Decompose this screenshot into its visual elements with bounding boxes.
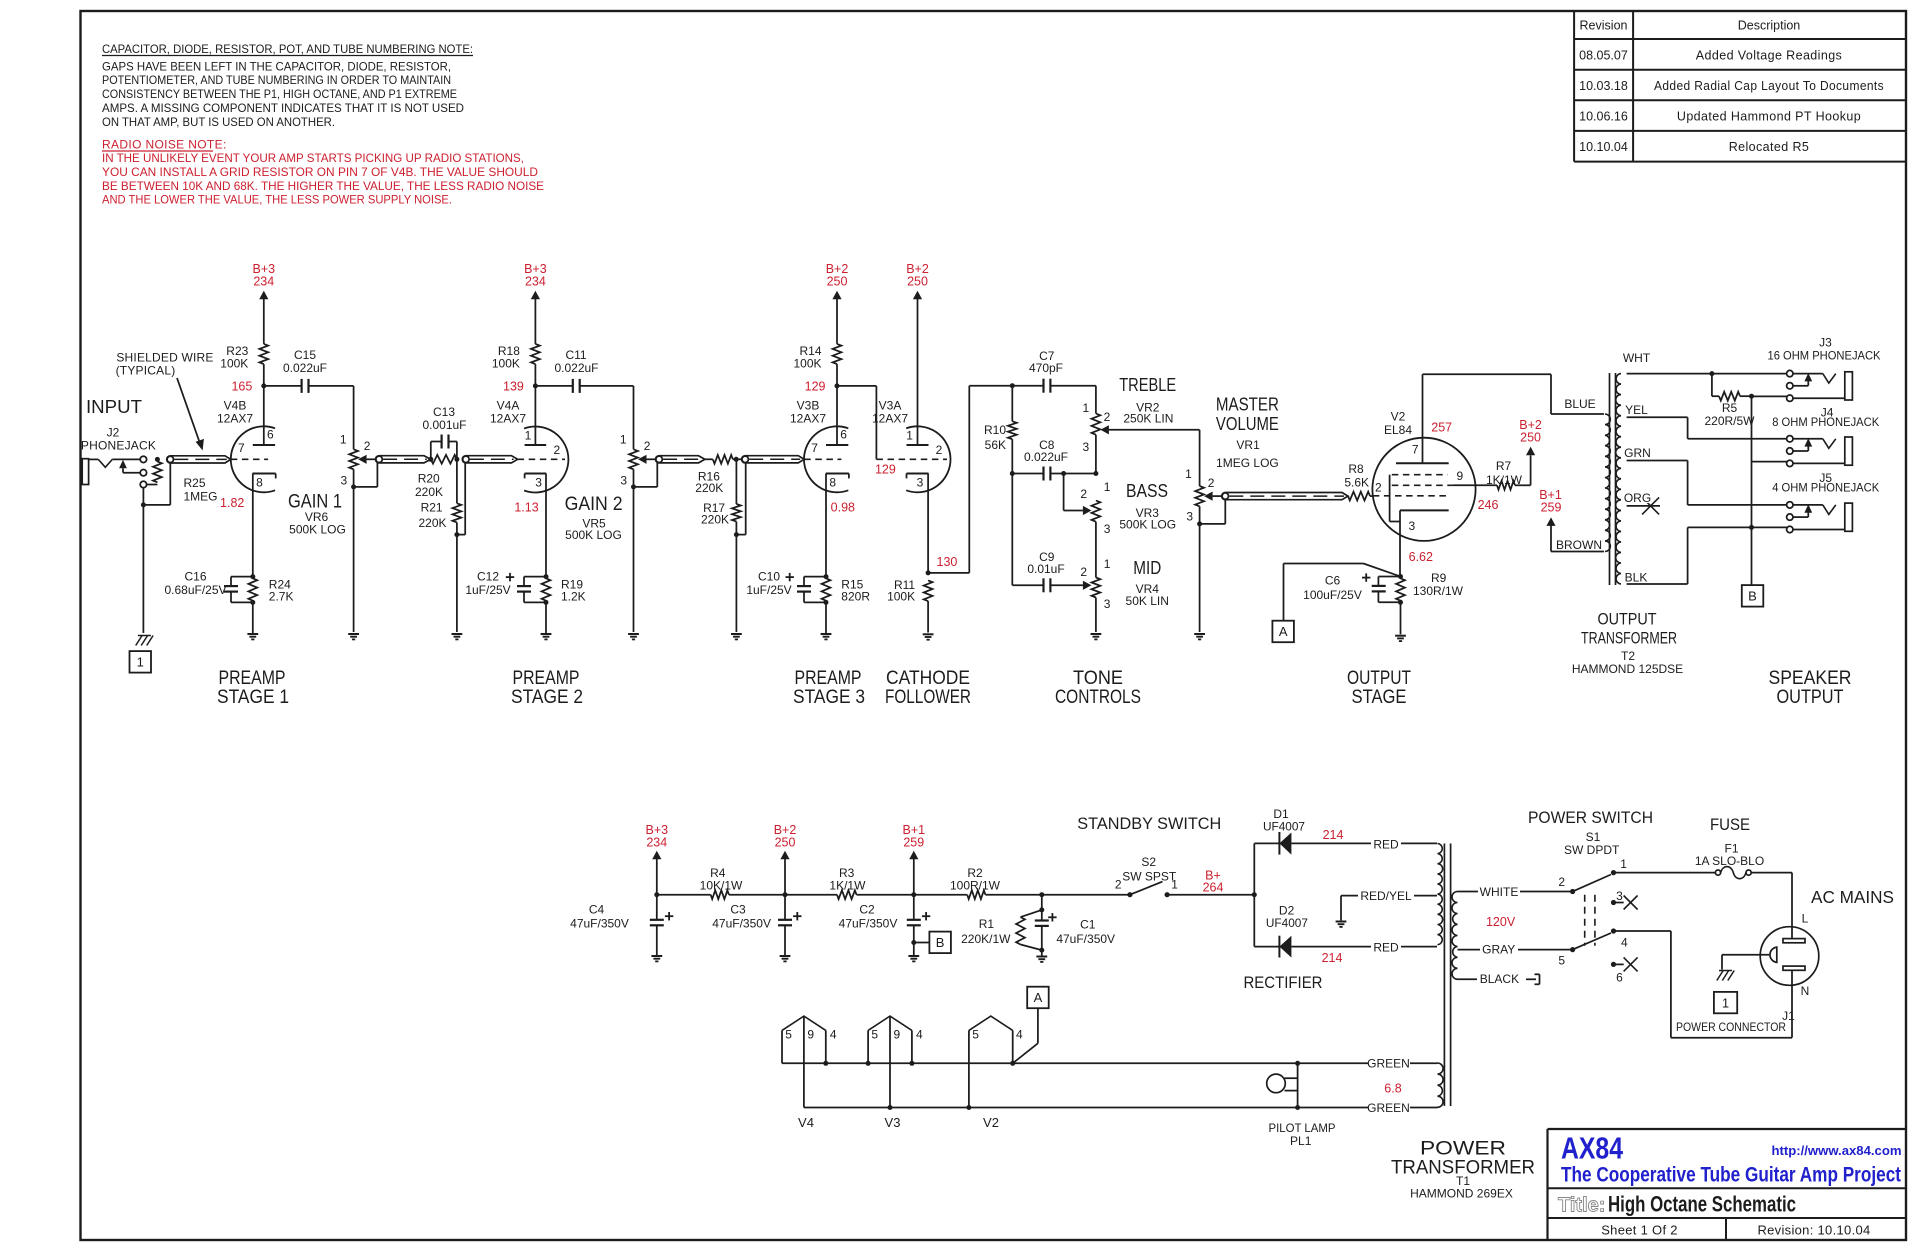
svg-text:T2: T2 <box>1621 649 1635 663</box>
tube V3A <box>872 399 951 573</box>
svg-text:BLACK: BLACK <box>1480 972 1519 986</box>
svg-text:GAPS HAVE BEEN LEFT IN THE CAP: GAPS HAVE BEEN LEFT IN THE CAPACITOR, DI… <box>102 59 451 73</box>
svg-text:1: 1 <box>137 655 144 670</box>
svg-text:1.2K: 1.2K <box>561 589 586 603</box>
svg-text:0.022uF: 0.022uF <box>283 361 327 375</box>
blue label <box>1564 397 1595 411</box>
svg-text:220R/5W: 220R/5W <box>1704 414 1755 428</box>
svg-text:12AX7: 12AX7 <box>217 412 253 426</box>
diode D1 <box>1252 807 1306 897</box>
resistor R25 <box>147 457 218 504</box>
svg-text:3: 3 <box>1409 519 1416 533</box>
svg-text:1: 1 <box>1620 857 1627 871</box>
pot VR6 gain1 <box>340 386 377 640</box>
net B+3 supply <box>646 823 669 895</box>
svg-text:1A SLO-BLO: 1A SLO-BLO <box>1695 854 1764 868</box>
svg-text:6: 6 <box>840 428 847 442</box>
svg-text:R25: R25 <box>184 476 206 490</box>
svg-text:POTENTIOMETER, AND TUBE NUMBER: POTENTIOMETER, AND TUBE NUMBERING IN ORD… <box>102 73 451 87</box>
preamp stage3 label <box>793 668 865 708</box>
svg-text:3: 3 <box>917 475 924 489</box>
svg-text:R8: R8 <box>1348 462 1364 476</box>
tube V4A <box>490 386 568 577</box>
svg-text:10.10.04: 10.10.04 <box>1579 140 1628 154</box>
chassis ground input <box>136 636 153 646</box>
svg-text:2: 2 <box>1375 481 1382 495</box>
svg-text:1: 1 <box>1185 467 1192 481</box>
svg-text:V2: V2 <box>983 1115 999 1130</box>
capacitor C16 and resistor R24 <box>164 570 293 640</box>
svg-text:R21: R21 <box>421 501 443 515</box>
svg-text:BROWN: BROWN <box>1556 538 1602 552</box>
svg-text:The Cooperative Tube Guitar Am: The Cooperative Tube Guitar Amp Project <box>1561 1164 1901 1187</box>
svg-text:Revision: Revision <box>1580 19 1628 33</box>
svg-text:PREAMP: PREAMP <box>513 668 580 689</box>
svg-text:9: 9 <box>807 1028 814 1042</box>
input jack J2 <box>82 456 146 488</box>
svg-text:N: N <box>1801 984 1810 998</box>
svg-text:250K LIN: 250K LIN <box>1123 411 1173 425</box>
svg-text:5.6K: 5.6K <box>1344 475 1369 489</box>
pot VR3 bass <box>1064 474 1111 578</box>
svg-text:3: 3 <box>1616 889 1623 903</box>
svg-text:16 OHM PHONEJACK: 16 OHM PHONEJACK <box>1768 348 1881 362</box>
svg-text:234: 234 <box>646 836 667 850</box>
capacitor C9 <box>1012 550 1091 592</box>
svg-text:9: 9 <box>893 1028 900 1042</box>
svg-text:1: 1 <box>620 433 627 447</box>
voltage 257 <box>1431 420 1452 434</box>
svg-text:TREBLE: TREBLE <box>1119 375 1176 395</box>
svg-text:High Octane Schematic: High Octane Schematic <box>1608 1192 1796 1217</box>
svg-text:HAMMOND 269EX: HAMMOND 269EX <box>1410 1187 1513 1201</box>
svg-text:234: 234 <box>253 275 274 289</box>
voltage 246 <box>1478 498 1499 512</box>
svg-text:250: 250 <box>907 275 928 289</box>
svg-text:ORG: ORG <box>1624 491 1651 505</box>
svg-text:220K: 220K <box>415 485 443 499</box>
resistor R2 <box>950 866 1001 899</box>
svg-text:1uF/25V: 1uF/25V <box>465 583 510 597</box>
voltage 129 grid <box>875 463 896 477</box>
svg-text:2: 2 <box>1208 476 1215 490</box>
svg-text:1: 1 <box>525 429 532 443</box>
svg-text:6.8: 6.8 <box>1384 1082 1401 1096</box>
svg-text:8 OHM PHONEJACK: 8 OHM PHONEJACK <box>1772 415 1879 429</box>
svg-text:C10: C10 <box>758 570 780 584</box>
resistor R4 <box>700 866 743 899</box>
svg-text:PILOT LAMP: PILOT LAMP <box>1269 1121 1336 1135</box>
svg-text:214: 214 <box>1323 828 1344 842</box>
svg-text:12AX7: 12AX7 <box>872 412 908 426</box>
resistor R23 <box>220 344 268 393</box>
svg-text:L: L <box>1802 912 1809 926</box>
svg-text:470pF: 470pF <box>1029 361 1063 375</box>
wire plate to OT blue <box>1423 374 1605 414</box>
svg-text:TONE: TONE <box>1073 668 1123 689</box>
capacitor C10 and resistor R15 <box>746 570 870 640</box>
svg-text:6: 6 <box>1616 971 1623 985</box>
svg-text:0.022uF: 0.022uF <box>554 361 598 375</box>
wire plate to grid <box>837 386 876 459</box>
jack J4 <box>1772 405 1879 466</box>
power transformer T1 <box>1438 844 1458 1108</box>
brown label <box>1556 538 1602 552</box>
wire ORG tap not connected <box>1624 491 1660 514</box>
svg-text:V3: V3 <box>885 1115 901 1130</box>
svg-text:IN THE UNLIKELY EVENT YOUR AMP: IN THE UNLIKELY EVENT YOUR AMP STARTS PI… <box>102 151 524 165</box>
voltage 1.82 <box>220 496 244 510</box>
input label <box>81 397 156 453</box>
resistor R20 <box>415 455 459 499</box>
svg-text:OUTPUT: OUTPUT <box>1347 668 1411 689</box>
voltage 6.8 <box>1384 1082 1401 1096</box>
svg-text:3: 3 <box>1104 597 1111 611</box>
svg-text:50K LIN: 50K LIN <box>1126 594 1169 608</box>
svg-text:CONTROLS: CONTROLS <box>1055 687 1141 708</box>
svg-text:56K: 56K <box>985 438 1006 452</box>
capacitor C13 <box>422 405 466 459</box>
svg-text:UF4007: UF4007 <box>1263 820 1305 834</box>
wire S1 pin4 to mains <box>1614 931 1793 1038</box>
power switch label <box>1528 808 1653 857</box>
jack J5 <box>1772 471 1879 533</box>
svg-text:MASTER: MASTER <box>1216 395 1279 415</box>
voltage 6.62 <box>1409 550 1433 564</box>
resistor R21 <box>418 459 465 639</box>
tone controls label <box>1055 668 1141 708</box>
svg-text:CATHODE: CATHODE <box>886 668 970 689</box>
svg-text:(TYPICAL): (TYPICAL) <box>116 364 176 378</box>
svg-text:V4A: V4A <box>497 399 520 413</box>
svg-text:12AX7: 12AX7 <box>790 412 826 426</box>
svg-text:100uF/25V: 100uF/25V <box>1303 588 1362 602</box>
power connector 1 box <box>1676 992 1795 1034</box>
svg-text:5: 5 <box>871 1028 878 1042</box>
tube V2 EL84 <box>1372 374 1497 576</box>
wire PT gray <box>1458 942 1573 956</box>
master volume label <box>1216 395 1279 470</box>
svg-text:3: 3 <box>341 474 348 488</box>
svg-text:RED/YEL: RED/YEL <box>1360 889 1412 903</box>
svg-text:3: 3 <box>1186 509 1193 523</box>
wire input ground <box>141 463 170 633</box>
svg-text:Title:: Title: <box>1558 1195 1605 1217</box>
svg-text:1: 1 <box>1104 557 1111 571</box>
resistor R1 <box>961 907 1044 952</box>
svg-text:220K: 220K <box>695 481 723 495</box>
svg-text:2: 2 <box>364 439 371 453</box>
capacitor C12 and resistor R19 <box>465 570 585 640</box>
net B+2 screen <box>1519 418 1542 445</box>
svg-text:4: 4 <box>916 1028 923 1042</box>
wire speaker common bus <box>1749 396 1790 585</box>
svg-text:BE BETWEEN 10K AND 68K. THE H: BE BETWEEN 10K AND 68K. THE HIGHER THE V… <box>102 179 544 193</box>
svg-text:1: 1 <box>1171 878 1178 892</box>
svg-text:0.01uF: 0.01uF <box>1027 562 1064 576</box>
svg-text:C6: C6 <box>1325 574 1341 588</box>
svg-text:Revision: 10.10.04: Revision: 10.10.04 <box>1757 1223 1870 1238</box>
shielded wire note <box>116 351 214 451</box>
svg-text:GRAY: GRAY <box>1482 942 1515 956</box>
svg-text:2: 2 <box>936 443 943 457</box>
svg-text:100K: 100K <box>887 589 915 603</box>
shielded cable input <box>167 456 231 463</box>
net B+3 stage1 <box>253 262 276 344</box>
svg-text:2: 2 <box>644 439 651 453</box>
wire BLK tap <box>1624 527 1790 584</box>
svg-text:4: 4 <box>1621 936 1628 950</box>
svg-text:C3: C3 <box>730 903 746 917</box>
svg-text:R9: R9 <box>1431 571 1447 585</box>
capacitor C2 <box>839 895 931 962</box>
svg-text:1K/1W: 1K/1W <box>1486 473 1523 487</box>
svg-text:2: 2 <box>1080 565 1087 579</box>
net B+ 264 <box>1167 869 1254 895</box>
svg-text:YOU CAN INSTALL A GRID RESISTO: YOU CAN INSTALL A GRID RESISTOR ON PIN 7… <box>102 165 538 179</box>
net B+1 output <box>1539 488 1604 552</box>
svg-text:GAIN 2: GAIN 2 <box>565 494 623 515</box>
capacitor C6 and resistor R9 <box>1303 571 1464 641</box>
svg-text:Updated Hammond PT Hookup: Updated Hammond PT Hookup <box>1677 110 1861 124</box>
AC mains label <box>1811 887 1894 907</box>
svg-text:100K: 100K <box>220 357 248 371</box>
svg-text:SW DPDT: SW DPDT <box>1564 843 1620 857</box>
svg-text:5: 5 <box>785 1028 792 1042</box>
svg-text:47uF/350V: 47uF/350V <box>839 917 898 931</box>
svg-text:1K/1W: 1K/1W <box>829 879 866 893</box>
svg-text:R10: R10 <box>984 423 1006 437</box>
rectifier label <box>1244 973 1323 992</box>
shielded cable stage1 out <box>376 456 431 463</box>
AC mains plug J1 <box>1760 873 1819 998</box>
svg-text:3: 3 <box>1104 522 1111 536</box>
wire D2 to PT red <box>1291 941 1437 955</box>
wire heater green top <box>1298 1056 1438 1070</box>
switch S2 <box>1115 878 1178 898</box>
svg-text:A: A <box>1279 624 1288 639</box>
svg-text:47uF/350V: 47uF/350V <box>1056 932 1115 946</box>
svg-text:7: 7 <box>811 441 818 455</box>
svg-text:J2: J2 <box>107 426 120 440</box>
svg-text:1MEG LOG: 1MEG LOG <box>1216 456 1279 470</box>
svg-text:GREEN: GREEN <box>1367 1056 1410 1070</box>
revision table <box>1574 11 1906 162</box>
svg-text:0.001uF: 0.001uF <box>422 418 466 432</box>
capacitor C8 <box>1012 438 1096 481</box>
fuse label <box>1695 815 1764 868</box>
resistor R17 <box>701 459 746 639</box>
svg-text:R7: R7 <box>1496 459 1512 473</box>
svg-text:V4: V4 <box>798 1115 814 1130</box>
sheet title text <box>1558 1192 1796 1217</box>
svg-text:BASS: BASS <box>1126 481 1168 501</box>
resistor R5 <box>1702 374 1758 428</box>
svg-text:3: 3 <box>1083 440 1090 454</box>
svg-text:PHONEJACK: PHONEJACK <box>81 439 156 453</box>
svg-text:120V: 120V <box>1486 915 1516 929</box>
svg-text:AND THE LOWER THE VALUE, THE L: AND THE LOWER THE VALUE, THE LESS POWER … <box>102 193 452 207</box>
svg-text:STAGE 3: STAGE 3 <box>793 687 865 708</box>
svg-text:0.022uF: 0.022uF <box>1024 450 1068 464</box>
svg-text:2: 2 <box>1558 875 1565 889</box>
B+ rail wire <box>654 892 1129 897</box>
capacitor C1 <box>1035 895 1115 962</box>
pot VR4 mid <box>1080 557 1110 639</box>
wire PT centertap redyel <box>1336 889 1437 927</box>
svg-text:2: 2 <box>1104 410 1111 424</box>
capacitor C3 <box>712 895 801 962</box>
shielded cable stage2 out <box>655 456 704 463</box>
net B+2 supply <box>774 823 797 895</box>
svg-text:V2: V2 <box>1391 410 1406 424</box>
AX84 logo <box>1561 1131 1624 1166</box>
svg-text:250: 250 <box>1520 431 1541 445</box>
preamp stage1 label <box>217 668 289 708</box>
svg-text:GREEN: GREEN <box>1367 1101 1410 1115</box>
svg-text:165: 165 <box>231 379 252 393</box>
svg-text:5: 5 <box>1558 954 1565 968</box>
power connector ground <box>1717 955 1770 981</box>
project title text <box>1561 1164 1901 1187</box>
chassis node 1 box <box>130 651 152 673</box>
fuse F1 <box>1614 867 1793 879</box>
svg-text:SPEAKER: SPEAKER <box>1769 668 1852 689</box>
svg-text:4 OHM PHONEJACK: 4 OHM PHONEJACK <box>1772 481 1879 495</box>
svg-text:100R/1W: 100R/1W <box>950 879 1001 893</box>
svg-text:C12: C12 <box>477 570 499 584</box>
svg-text:130: 130 <box>937 555 958 569</box>
svg-text:C16: C16 <box>184 570 206 584</box>
svg-text:259: 259 <box>903 836 924 850</box>
svg-text:V3B: V3B <box>797 399 820 413</box>
svg-text:STANDBY SWITCH: STANDBY SWITCH <box>1077 814 1221 833</box>
switch S1 <box>1558 857 1637 985</box>
svg-text:SW SPST: SW SPST <box>1122 870 1177 884</box>
svg-text:http://www.ax84.com: http://www.ax84.com <box>1772 1143 1902 1158</box>
tone stack left rail <box>1010 383 1015 585</box>
output transformer T2 <box>1605 373 1621 585</box>
capacitor C15 <box>264 348 354 393</box>
svg-text:1: 1 <box>340 433 347 447</box>
heater V4 pins <box>782 1016 837 1130</box>
svg-text:234: 234 <box>525 275 546 289</box>
pot VR5 gain2 <box>620 386 657 640</box>
svg-text:250: 250 <box>827 275 848 289</box>
svg-text:6.62: 6.62 <box>1409 550 1433 564</box>
heater rail wires <box>782 1063 1298 1107</box>
treble label <box>1119 375 1176 425</box>
voltage 214 bottom <box>1322 951 1343 965</box>
svg-text:B: B <box>1748 588 1757 603</box>
svg-text:C11: C11 <box>565 348 586 362</box>
svg-text:BLUE: BLUE <box>1564 397 1595 411</box>
svg-text:7: 7 <box>1412 443 1419 457</box>
OT label <box>1572 610 1683 677</box>
speaker output label <box>1769 668 1852 708</box>
svg-text:INPUT: INPUT <box>86 397 142 417</box>
wire PT white <box>1458 885 1573 899</box>
tube V3B <box>790 386 849 577</box>
svg-text:CAPACITOR, DIODE, RESISTOR, PO: CAPACITOR, DIODE, RESISTOR, POT, AND TUB… <box>102 42 473 56</box>
svg-text:130R/1W: 130R/1W <box>1413 584 1464 598</box>
svg-text:1: 1 <box>1722 995 1729 1010</box>
svg-text:246: 246 <box>1478 498 1499 512</box>
bass label <box>1119 481 1176 531</box>
shielded cable stage3 in <box>742 456 805 463</box>
svg-text:AX84: AX84 <box>1561 1131 1624 1166</box>
feedback node A wire <box>1284 564 1401 621</box>
svg-text:PL1: PL1 <box>1290 1134 1312 1148</box>
title block <box>1548 1129 1907 1240</box>
svg-text:100K: 100K <box>793 357 821 371</box>
svg-text:3: 3 <box>620 474 627 488</box>
net B+2 stage3 <box>826 262 849 344</box>
svg-text:12AX7: 12AX7 <box>490 412 526 426</box>
resistor R10 <box>984 421 1017 452</box>
svg-text:C2: C2 <box>859 903 875 917</box>
svg-text:1MEG: 1MEG <box>184 490 218 504</box>
svg-text:2: 2 <box>554 443 561 457</box>
radio noise note text <box>102 138 544 207</box>
svg-text:10.06.16: 10.06.16 <box>1579 110 1628 124</box>
svg-text:08.05.07: 08.05.07 <box>1579 49 1628 63</box>
shielded cable stage2 in <box>462 456 517 463</box>
svg-text:139: 139 <box>503 379 524 393</box>
wire heater green bottom <box>1298 1101 1438 1115</box>
standby switch label <box>1077 814 1221 884</box>
svg-text:257: 257 <box>1431 420 1452 434</box>
preamp stage2 label <box>511 668 583 708</box>
svg-text:CONSISTENCY BETWEEN THE P1, HI: CONSISTENCY BETWEEN THE P1, HIGH OCTANE,… <box>102 87 457 101</box>
svg-text:500K LOG: 500K LOG <box>289 523 346 537</box>
resistor R7 <box>1486 447 1535 490</box>
url text <box>1772 1143 1902 1158</box>
heater V3 pins <box>866 1016 923 1130</box>
resistor R16 <box>695 455 741 495</box>
svg-text:220K: 220K <box>701 513 729 527</box>
svg-text:R1: R1 <box>979 917 995 931</box>
net B+1 supply <box>903 823 926 895</box>
svg-text:500K LOG: 500K LOG <box>565 528 622 542</box>
resistor R18 <box>492 344 540 393</box>
sheet number text <box>1601 1223 1678 1238</box>
voltage 1.13 <box>514 501 538 515</box>
svg-text:1: 1 <box>906 429 913 443</box>
resistor R14 <box>793 344 841 393</box>
mid label <box>1126 558 1169 608</box>
svg-text:10.03.18: 10.03.18 <box>1579 79 1628 93</box>
tube V4B <box>217 386 276 577</box>
diode D2 <box>1254 895 1308 958</box>
net B+2 cathode follower <box>906 262 929 445</box>
revision text <box>1757 1223 1870 1238</box>
node B box speaker <box>1742 585 1764 607</box>
svg-text:3: 3 <box>535 475 542 489</box>
PT label <box>1391 1138 1535 1201</box>
svg-text:GRN: GRN <box>1624 446 1651 460</box>
svg-text:R5: R5 <box>1722 401 1738 415</box>
svg-text:EL84: EL84 <box>1384 423 1412 437</box>
svg-text:47uF/350V: 47uF/350V <box>712 917 771 931</box>
svg-text:0.98: 0.98 <box>831 501 855 515</box>
svg-text:RADIO NOISE NOTE:: RADIO NOISE NOTE: <box>102 138 227 152</box>
svg-text:1uF/25V: 1uF/25V <box>746 583 791 597</box>
gain1 label <box>288 492 346 537</box>
output stage label <box>1347 668 1411 708</box>
svg-text:Added Radial Cap Layout To Doc: Added Radial Cap Layout To Documents <box>1654 79 1884 93</box>
svg-text:Sheet 1 Of 2: Sheet 1 Of 2 <box>1601 1223 1678 1238</box>
